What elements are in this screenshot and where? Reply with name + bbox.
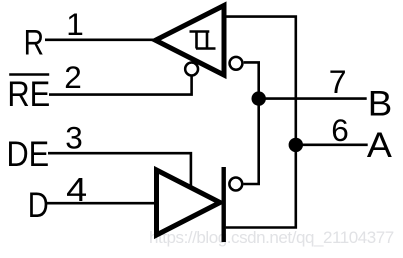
svg-text:1: 1 [66,6,84,42]
svg-text:DE: DE [6,135,49,174]
wire DE enable [48,153,191,188]
overline of RE [9,73,49,76]
bubble receiver inverting input [230,57,243,70]
svg-text:https://blog.csdn.net/qq_21104: https://blog.csdn.net/qq_21104377 [149,228,394,247]
bubble RE on receiver [185,63,198,76]
wire R output [45,38,158,41]
svg-text:7: 7 [329,64,347,100]
svg-text:A: A [367,126,393,165]
svg-text:D: D [28,186,49,225]
wire pin 6 A [296,144,368,147]
hysteresis symbol [190,32,216,49]
driver U2 [157,170,221,235]
svg-text:3: 3 [65,119,83,155]
junction node B [252,91,266,105]
svg-text:2: 2 [64,59,82,95]
wire receiver noninverting input to net A [224,17,296,228]
receiver U1 [156,6,225,76]
wire RE enable [49,75,192,95]
svg-text:B: B [368,84,393,123]
svg-text:R: R [24,23,44,62]
wire D input [46,202,157,205]
driver output bar [221,167,225,242]
svg-text:6: 6 [331,112,349,148]
junction node A [289,138,303,152]
wire receiver inverting input to net B [244,62,259,184]
bubble driver inverting output [229,178,242,191]
svg-text:RE: RE [7,75,50,114]
svg-text:4: 4 [66,171,87,208]
wire pin 7 B [259,97,367,100]
